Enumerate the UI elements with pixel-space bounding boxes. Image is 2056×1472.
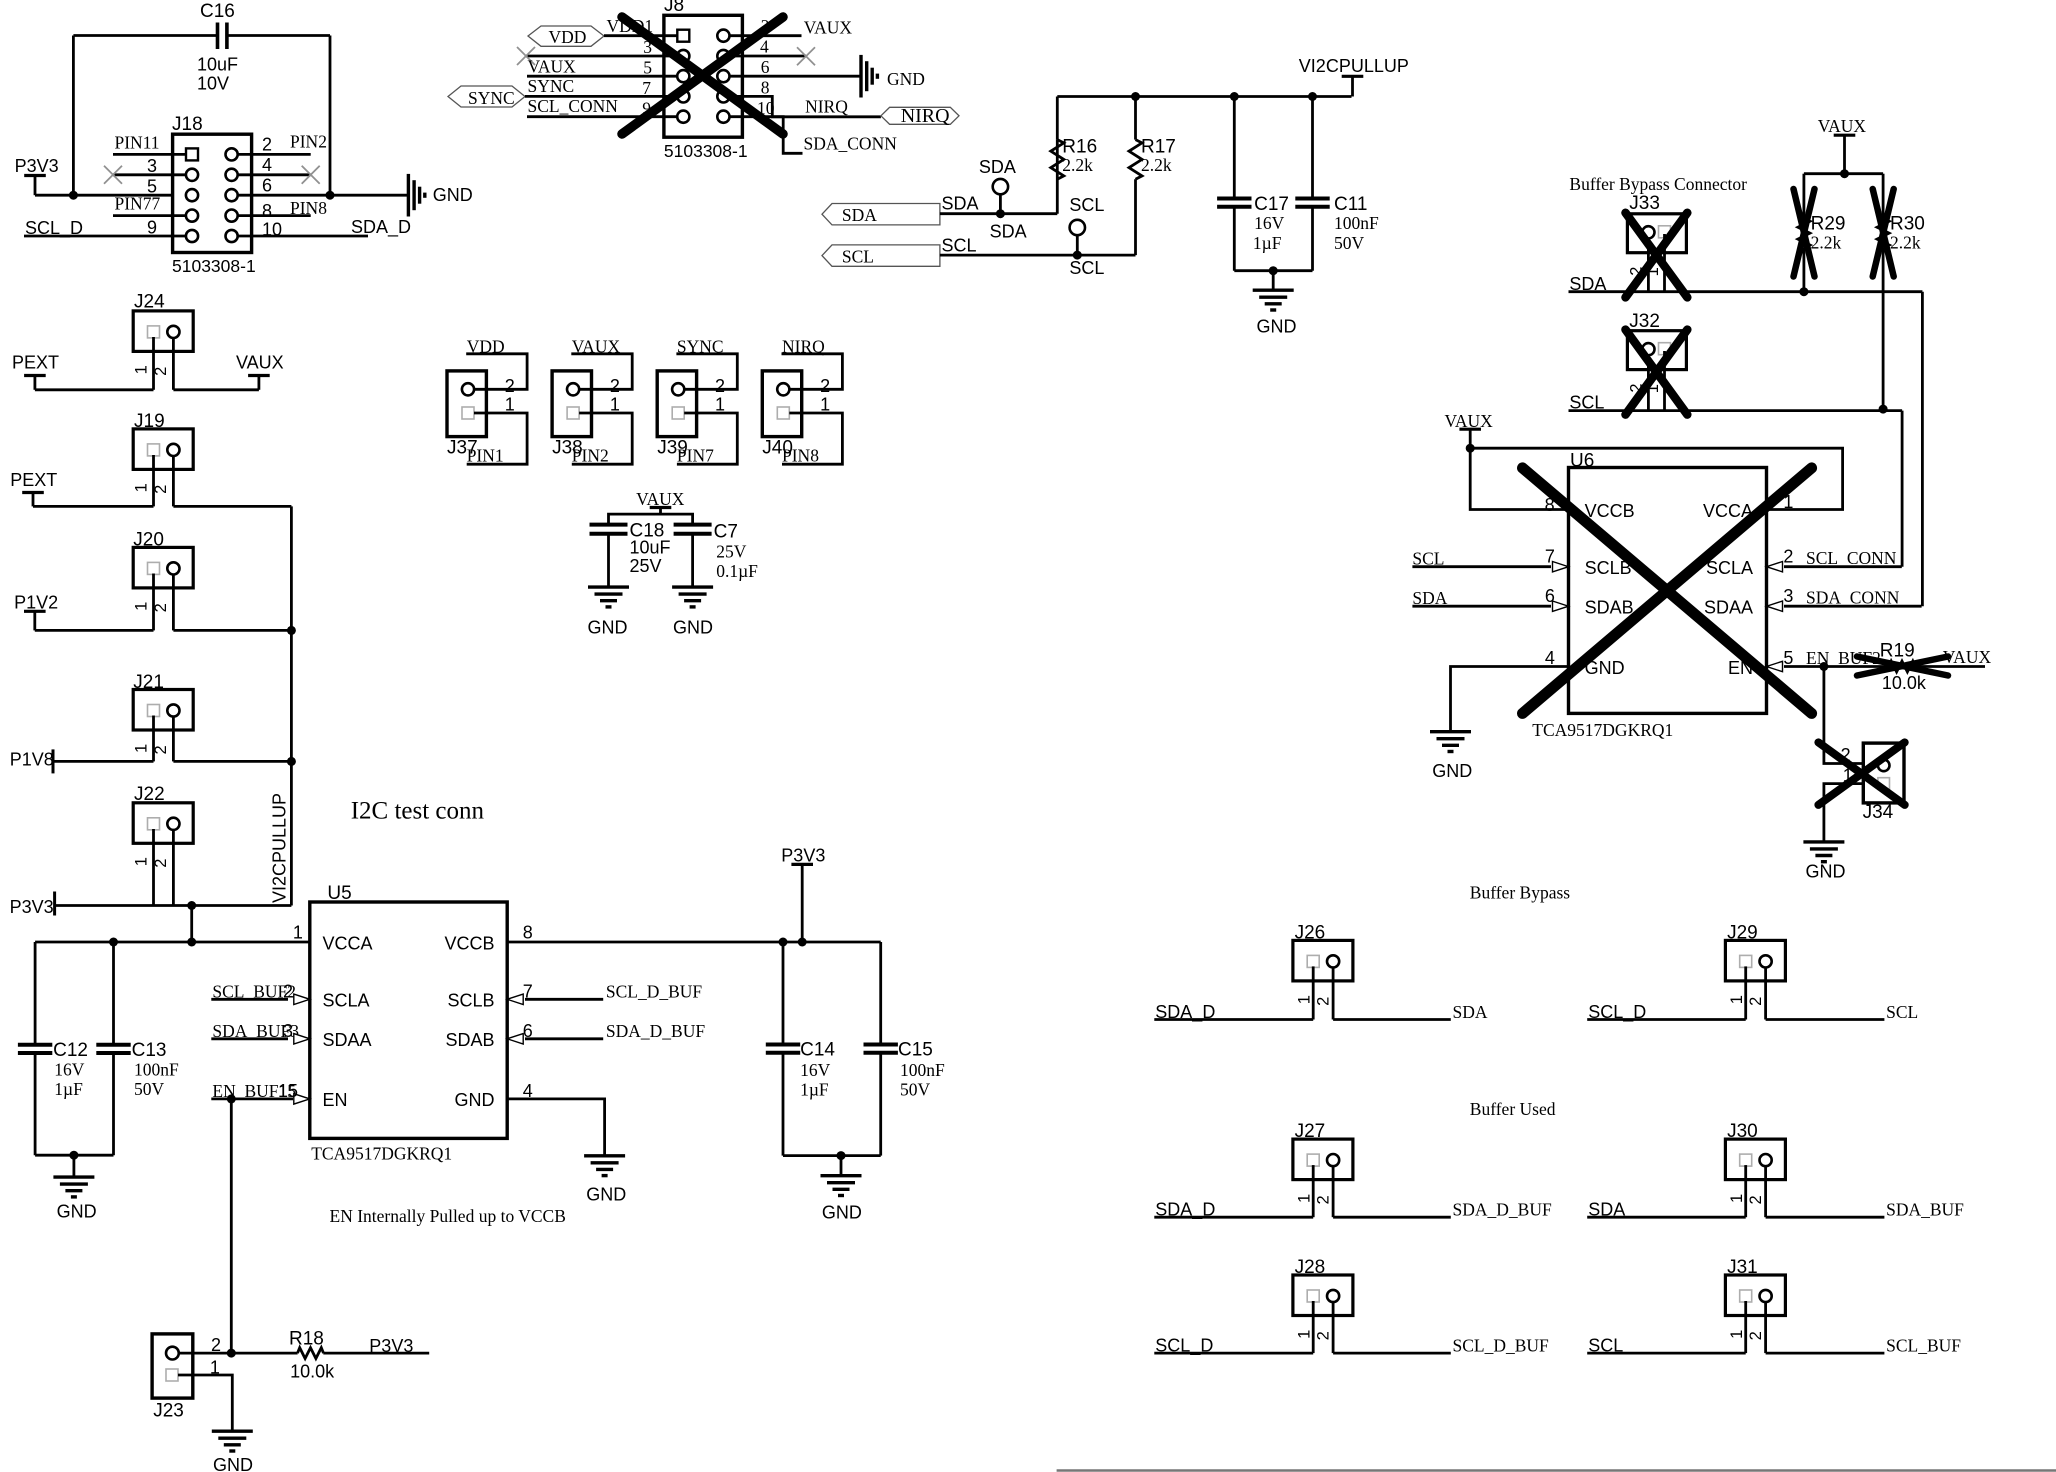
node junction gnd rail left — [69, 1151, 78, 1160]
wire gnd stub — [1272, 271, 1275, 291]
wire J34 pin1 to GND — [1824, 784, 1863, 842]
wire J24 pin1 — [152, 337, 155, 390]
flag VDD — [528, 26, 604, 47]
ground GND (C12/C13) — [53, 1177, 96, 1221]
svg-text:2: 2 — [1315, 1331, 1333, 1340]
wire J28 pin1 — [1312, 1301, 1315, 1353]
net label EN_BUF2 (U6 EN) — [1767, 648, 1881, 672]
svg-text:16V: 16V — [1254, 213, 1285, 233]
capacitor C11 — [1295, 194, 1379, 253]
wire J23 pin2 — [179, 1352, 232, 1355]
svg-text:Buffer Used: Buffer Used — [1470, 1099, 1556, 1119]
wire C7 to gnd — [691, 534, 694, 587]
svg-text:P3V3: P3V3 — [781, 845, 825, 865]
svg-text:C15: C15 — [898, 1040, 933, 1061]
svg-text:SDA: SDA — [842, 205, 877, 225]
resistor R30 — [1877, 214, 1925, 253]
svg-text:6: 6 — [262, 176, 272, 196]
net label SCL_D_BUF (J28 right) — [1333, 1336, 1549, 1356]
net label SCL_D_BUF (U5 SCLB) — [507, 981, 702, 1004]
svg-text:7: 7 — [1545, 546, 1555, 566]
ground GND (C7) — [672, 587, 713, 638]
power PEXT (J24) — [12, 353, 59, 390]
svg-text:GND: GND — [586, 1184, 626, 1204]
svg-text:1: 1 — [1728, 1194, 1746, 1203]
resistor R17 — [1129, 137, 1176, 179]
svg-text:SDAA: SDAA — [323, 1030, 372, 1050]
power P3V3 (J22) — [10, 892, 55, 918]
svg-text:GND: GND — [588, 618, 628, 638]
wire J8 pin8 to NIRQ — [730, 96, 881, 116]
wire R16 top lead — [1056, 97, 1059, 140]
wire J32 pin2 — [1647, 355, 1650, 411]
wire C14 bottom — [782, 1053, 785, 1156]
no-connect X (J8 pin4) — [797, 47, 815, 65]
wire J33 pin2 — [1647, 238, 1650, 292]
wire C17 bottom — [1233, 207, 1236, 271]
connector J34 — [1863, 743, 1904, 823]
wire J27 pin2 — [1332, 1165, 1335, 1217]
svg-text:R29: R29 — [1811, 214, 1846, 235]
flag SDA — [822, 204, 940, 226]
svg-text:PIN1: PIN1 — [467, 446, 504, 466]
wire R30 top lead — [1882, 174, 1885, 219]
svg-text:0.1µF: 0.1µF — [716, 561, 758, 581]
svg-text:P3V3: P3V3 — [15, 156, 59, 176]
ground GND (C18) — [588, 587, 630, 638]
op-amp U6 (TCA9517 buffer) — [1532, 450, 1766, 740]
wire C13 bottom — [112, 1053, 115, 1155]
svg-text:1: 1 — [132, 602, 150, 611]
ground GND (C14/C15) — [821, 1176, 862, 1223]
wire J29 pin2 — [1764, 966, 1767, 1019]
svg-text:SCLA: SCLA — [323, 991, 370, 1011]
connector J27 — [1293, 1121, 1353, 1204]
wire pullup cap gnd rail — [1234, 269, 1312, 272]
wire VAUX to VCCB — [1470, 448, 1568, 509]
wire C16 right drop — [329, 36, 332, 196]
power VAUX (J24) — [236, 353, 284, 390]
svg-text:I2C test conn: I2C test conn — [351, 797, 485, 824]
capacitor C15 — [864, 1040, 946, 1100]
svg-text:VAUX: VAUX — [528, 57, 577, 77]
wire J30 pin2 — [1764, 1165, 1767, 1217]
svg-text:SCL: SCL — [842, 246, 874, 266]
wire C12 branch top — [34, 942, 37, 1045]
svg-text:PIN2: PIN2 — [290, 132, 327, 152]
wire J30 pin1 — [1744, 1165, 1747, 1217]
testpoint SDA — [979, 157, 1016, 214]
svg-text:2: 2 — [1783, 546, 1793, 566]
svg-text:SDA: SDA — [942, 194, 979, 214]
title block border — [1057, 1469, 2056, 1471]
svg-text:PEXT: PEXT — [12, 353, 59, 373]
net label SDA_D (J27 left) — [1154, 1200, 1313, 1221]
svg-text:3: 3 — [1783, 586, 1793, 606]
wire C11 drop — [1311, 97, 1314, 199]
svg-text:1: 1 — [1295, 1194, 1313, 1203]
svg-text:1µF: 1µF — [1253, 233, 1282, 253]
svg-text:2: 2 — [610, 376, 620, 396]
svg-text:PIN11: PIN11 — [115, 133, 160, 153]
svg-text:SDA_CONN: SDA_CONN — [804, 134, 898, 154]
resistor R19 — [1856, 641, 1985, 694]
wire C13 branch top — [112, 942, 115, 1045]
X-out R19 — [1857, 657, 1948, 676]
svg-text:2: 2 — [262, 135, 272, 155]
flag NIRQ — [881, 105, 959, 127]
node junction R17 rail — [1131, 92, 1140, 101]
svg-text:PIN8: PIN8 — [782, 446, 819, 466]
wire J18 pin4 — [238, 173, 311, 176]
resistor R29 — [1798, 214, 1846, 253]
svg-text:5103308-1: 5103308-1 — [172, 256, 256, 276]
svg-text:R18: R18 — [289, 1329, 324, 1350]
connector J40 — [762, 371, 801, 459]
svg-text:1µF: 1µF — [54, 1079, 83, 1099]
wire J8 pin6 to GND — [730, 75, 862, 78]
svg-text:SCL_CONN: SCL_CONN — [528, 96, 619, 116]
connector J21 — [132, 672, 193, 755]
svg-text:PIN7: PIN7 — [677, 446, 714, 466]
wire J24 pin2 — [172, 337, 175, 390]
wire gnd stub right — [840, 1156, 843, 1176]
net label VAUX (J8 pin2) — [730, 18, 853, 38]
svg-text:J33: J33 — [1629, 193, 1660, 214]
power P1V2 — [14, 592, 58, 630]
svg-text:J18: J18 — [172, 114, 203, 135]
svg-text:2: 2 — [1747, 997, 1765, 1006]
net label SDA (U6 SDAB) — [1412, 588, 1568, 611]
node junction VAUX/U6 — [1466, 444, 1475, 453]
no-connect X (J18 pin4) — [302, 166, 320, 184]
svg-text:SCLB: SCLB — [447, 991, 494, 1011]
net label SDA (J30 left) — [1587, 1200, 1746, 1220]
wire J21 pin1 — [152, 716, 155, 762]
ground GND (pullup caps) — [1253, 290, 1297, 336]
svg-text:SDA_D_BUF: SDA_D_BUF — [1453, 1200, 1552, 1220]
net label SDA_D_BUF (J27 right) — [1333, 1200, 1552, 1220]
svg-text:VCCA: VCCA — [323, 933, 373, 953]
svg-text:SYNC: SYNC — [468, 88, 515, 108]
svg-text:VAUX: VAUX — [1943, 647, 1992, 667]
wire J24 pin2 to VAUX — [173, 388, 259, 391]
X-out J8 — [622, 17, 783, 134]
wire SCL bypass rail — [1569, 409, 1903, 412]
svg-text:2.2k: 2.2k — [1890, 233, 1921, 253]
no-connect X (J8 pin3) — [517, 47, 535, 65]
svg-text:9: 9 — [147, 218, 157, 238]
node junction EN wire — [227, 1094, 236, 1103]
connector J30 — [1725, 1121, 1785, 1204]
svg-text:SCL_D_BUF: SCL_D_BUF — [1453, 1336, 1550, 1356]
testpoint SCL — [1069, 195, 1104, 255]
connector J23 — [152, 1334, 193, 1421]
wire J8 pin3 — [526, 55, 677, 58]
net label SCL (J29 right) — [1766, 1002, 1919, 1022]
svg-text:C16: C16 — [200, 1, 235, 22]
wire J21 pin2 to VI2CPULLUP — [173, 760, 291, 763]
svg-text:8: 8 — [262, 201, 272, 221]
svg-text:R30: R30 — [1890, 214, 1925, 235]
svg-text:10V: 10V — [197, 74, 229, 94]
svg-text:4: 4 — [262, 155, 272, 175]
svg-text:P1V2: P1V2 — [14, 592, 58, 612]
wire VDD to J8 pin1 — [604, 34, 677, 37]
net label SDA (J26 right) — [1333, 1002, 1488, 1022]
node junction SCL testpoint — [1073, 251, 1082, 260]
wire R17 top lead — [1134, 97, 1137, 140]
svg-text:2: 2 — [1747, 1195, 1765, 1204]
svg-text:1: 1 — [132, 857, 150, 866]
wire SDA — [940, 212, 1057, 215]
wire P1V2 to J20 — [35, 629, 154, 632]
wire J19 pin2 to VI2CPULLUP — [173, 505, 291, 508]
svg-text:2: 2 — [820, 376, 830, 396]
svg-text:R19: R19 — [1880, 641, 1915, 662]
node junction P3V3 stub — [798, 938, 807, 947]
wire VCCB rail — [507, 941, 881, 944]
wire SDA bypass rail — [1569, 290, 1923, 293]
svg-text:6: 6 — [1545, 586, 1555, 606]
connector J39 — [657, 371, 696, 459]
net label SCL_D (J29 left) — [1587, 1002, 1746, 1023]
wire C14 branch — [782, 942, 785, 1045]
connector J26 — [1293, 922, 1353, 1005]
svg-text:Buffer Bypass Connector: Buffer Bypass Connector — [1569, 174, 1747, 194]
svg-text:SDAA: SDAA — [1704, 598, 1753, 618]
svg-text:1: 1 — [132, 365, 150, 374]
net label SYNC (J39 pin2) — [676, 337, 737, 396]
connector J37 — [447, 371, 486, 459]
svg-text:NIRQ: NIRQ — [805, 96, 848, 116]
svg-text:SDAB: SDAB — [1585, 598, 1634, 618]
connector J8 — [664, 0, 748, 161]
svg-text:VCCB: VCCB — [444, 933, 494, 953]
svg-text:P3V3: P3V3 — [369, 1336, 413, 1356]
net label SCL_BUF2 (U5 SCLA) — [211, 981, 309, 1004]
capacitor C16 — [197, 1, 238, 94]
ground GND (J23) — [212, 1431, 253, 1472]
connector J29 — [1725, 922, 1785, 1005]
svg-text:1: 1 — [1728, 995, 1746, 1004]
net label VDD (J37 pin2) — [466, 337, 527, 396]
net label SDA_D_BUF (U5 SDAB) — [507, 1021, 705, 1044]
power VAUX (R29/R30) — [1818, 116, 1867, 174]
svg-text:5: 5 — [1783, 648, 1793, 668]
power VI2CPULLUP — [1299, 56, 1409, 96]
svg-text:1: 1 — [1295, 995, 1313, 1004]
resistor R18 — [231, 1329, 335, 1382]
wire C16 left — [73, 34, 217, 37]
svg-text:SDA: SDA — [1453, 1002, 1488, 1022]
ground GND (J8, sideways) — [861, 55, 925, 98]
svg-text:SCLA: SCLA — [1706, 558, 1753, 578]
svg-text:1: 1 — [610, 394, 620, 414]
svg-text:SCL: SCL — [1069, 195, 1104, 215]
wire P1V8 to J21 — [53, 760, 154, 763]
wire J26 pin1 — [1312, 966, 1315, 1019]
svg-text:GND: GND — [213, 1455, 253, 1472]
wire R30 bottom lead — [1882, 247, 1885, 409]
wire P3V3 to VI2CPULLUP corner — [55, 904, 292, 907]
svg-text:SCL: SCL — [942, 236, 977, 256]
connector J32 — [1627, 311, 1686, 393]
wire C16 right — [227, 34, 330, 37]
svg-text:EN Internally Pulled up to VCC: EN Internally Pulled up to VCCB — [330, 1206, 566, 1226]
wire SCL — [940, 254, 1136, 257]
net label EN_BUF15 (U5 EN) — [211, 1081, 309, 1104]
node junction VCCA rail — [187, 938, 196, 947]
wire SCL riser to R17 — [1134, 179, 1137, 255]
node junction C16/P3V3 — [69, 191, 78, 200]
op-amp U5 (TCA9517 buffer) — [310, 883, 507, 1163]
svg-text:SDAB: SDAB — [445, 1030, 494, 1050]
wire J33 pin1 — [1663, 234, 1666, 292]
svg-text:EN: EN — [323, 1090, 348, 1110]
wire SDA riser to R16 — [1056, 140, 1059, 214]
svg-text:J32: J32 — [1629, 311, 1660, 332]
wire VI2CPULLUP vertical — [290, 506, 293, 905]
capacitor C17 — [1217, 194, 1289, 253]
svg-text:SYNC: SYNC — [528, 76, 575, 96]
net label SYNC (J8 pin7) — [525, 76, 677, 98]
connector J24 — [132, 292, 193, 376]
power PEXT (J19) — [10, 470, 57, 506]
node junction SDA testpoint — [996, 209, 1005, 218]
svg-text:J34: J34 — [1863, 802, 1894, 823]
connector J38 — [552, 371, 591, 459]
svg-text:10.0k: 10.0k — [290, 1362, 335, 1382]
svg-text:GND: GND — [433, 185, 473, 205]
wire J20 pin2 — [172, 574, 175, 631]
svg-text:10uF: 10uF — [630, 538, 671, 558]
connector J28 — [1293, 1257, 1353, 1340]
wire J18 pin6 to GND — [238, 194, 409, 197]
svg-text:SCL_CONN: SCL_CONN — [1806, 548, 1897, 568]
ground GND (U6) — [1430, 732, 1472, 781]
svg-text:PEXT: PEXT — [10, 470, 57, 490]
wire drop to VCCA rail — [190, 906, 193, 943]
svg-text:50V: 50V — [134, 1079, 165, 1099]
wire R18 to P3V3 — [323, 1352, 429, 1355]
svg-text:2.2k: 2.2k — [1062, 155, 1093, 175]
svg-text:2.2k: 2.2k — [1811, 233, 1842, 253]
wire J22 pin2 — [172, 829, 175, 906]
net label SDA_CONN (U6 SDAA) — [1767, 587, 1922, 611]
power VAUX (U6) — [1445, 411, 1494, 448]
capacitor C14 — [766, 1040, 836, 1100]
wire C12 bottom — [34, 1053, 37, 1155]
wire C16 left drop — [72, 36, 75, 196]
svg-text:10uF: 10uF — [197, 55, 238, 75]
wire J29 pin1 — [1744, 966, 1747, 1019]
wire J20 pin1 — [152, 574, 155, 631]
wire J31 pin1 — [1744, 1301, 1747, 1353]
wire EN drop to J34 — [1824, 667, 1863, 764]
svg-text:GND: GND — [57, 1202, 97, 1222]
wire U6 GND pin — [1451, 667, 1569, 732]
svg-text:SDA_BUF: SDA_BUF — [1886, 1200, 1964, 1220]
connector J20 — [132, 530, 193, 613]
net label PIN7 (J39 pin1) — [677, 394, 737, 465]
node junction R29/SDA — [1799, 287, 1808, 296]
svg-text:1: 1 — [293, 922, 303, 942]
svg-text:1: 1 — [715, 394, 725, 414]
svg-text:VDD: VDD — [549, 27, 587, 47]
svg-text:NIRQ: NIRQ — [901, 105, 950, 127]
node junction VAUX rail — [1840, 169, 1849, 178]
svg-text:2.2k: 2.2k — [1141, 155, 1172, 175]
svg-text:3: 3 — [283, 1021, 293, 1041]
wire J22 pin1 — [152, 829, 155, 906]
svg-text:1: 1 — [1728, 1330, 1746, 1339]
wire J28 pin2 — [1332, 1301, 1335, 1353]
svg-text:2: 2 — [283, 981, 293, 1001]
svg-text:SDA: SDA — [990, 221, 1027, 241]
wire SDA to SDA_CONN drop — [1921, 292, 1924, 607]
capacitor C7 — [674, 522, 759, 582]
svg-text:C11: C11 — [1334, 194, 1367, 215]
svg-text:2: 2 — [715, 376, 725, 396]
svg-text:1: 1 — [505, 394, 515, 414]
svg-text:100nF: 100nF — [1334, 213, 1379, 233]
svg-text:VI2CPULLUP: VI2CPULLUP — [270, 793, 290, 903]
wire PEXT to J19 — [33, 505, 154, 508]
svg-text:SCL: SCL — [1886, 1002, 1918, 1022]
svg-text:VAUX: VAUX — [804, 18, 853, 38]
net label SDA_BUF (J30 right) — [1766, 1200, 1965, 1220]
connector J22 — [132, 784, 193, 868]
net label SCL_BUF (J31 right) — [1766, 1336, 1962, 1356]
wire U5 GND pin — [507, 1099, 604, 1156]
net label SCL_CONN (J8 pin9) — [527, 96, 677, 119]
wire J20 pin2 to VI2CPULLUP — [173, 629, 291, 632]
wire J32 pin1 — [1663, 351, 1666, 411]
node junction J20/VI2CPULLUP — [287, 626, 296, 635]
svg-text:2: 2 — [1315, 997, 1333, 1006]
power P3V3 (C14/C15) — [781, 845, 825, 942]
wire R29 bottom lead — [1803, 247, 1806, 291]
svg-text:SDA_D_BUF: SDA_D_BUF — [606, 1021, 705, 1041]
net label SCL (U6 SCLB) — [1412, 548, 1568, 572]
X-out R29 — [1794, 189, 1815, 277]
svg-text:15: 15 — [278, 1081, 298, 1101]
connector J19 — [132, 411, 193, 494]
svg-text:100nF: 100nF — [900, 1060, 945, 1080]
node junction C16 right/GND wire — [326, 191, 335, 200]
svg-text:PIN2: PIN2 — [572, 446, 609, 466]
X-out J33 — [1626, 213, 1688, 298]
svg-text:1µF: 1µF — [800, 1080, 829, 1100]
net label VAUX (J8 pin5) — [527, 57, 677, 78]
svg-text:SCL_BUF: SCL_BUF — [1886, 1336, 1961, 1356]
connector J31 — [1725, 1257, 1785, 1340]
svg-text:GND: GND — [455, 1090, 495, 1110]
svg-text:SCL_D_BUF: SCL_D_BUF — [606, 981, 703, 1001]
svg-text:P1V8: P1V8 — [10, 750, 54, 770]
connector J33 — [1627, 193, 1686, 276]
node junction C11 rail — [1308, 92, 1317, 101]
wire VAUX cap rail — [609, 514, 693, 525]
node junction C14 branch — [779, 938, 788, 947]
svg-text:GND: GND — [1432, 761, 1472, 781]
svg-text:1: 1 — [132, 744, 150, 753]
svg-text:100nF: 100nF — [134, 1060, 179, 1080]
wire C14/C15 gnd rail — [783, 1154, 881, 1157]
resistor R16 — [1051, 137, 1097, 179]
net label SCL_D (J28 left) — [1154, 1336, 1313, 1357]
